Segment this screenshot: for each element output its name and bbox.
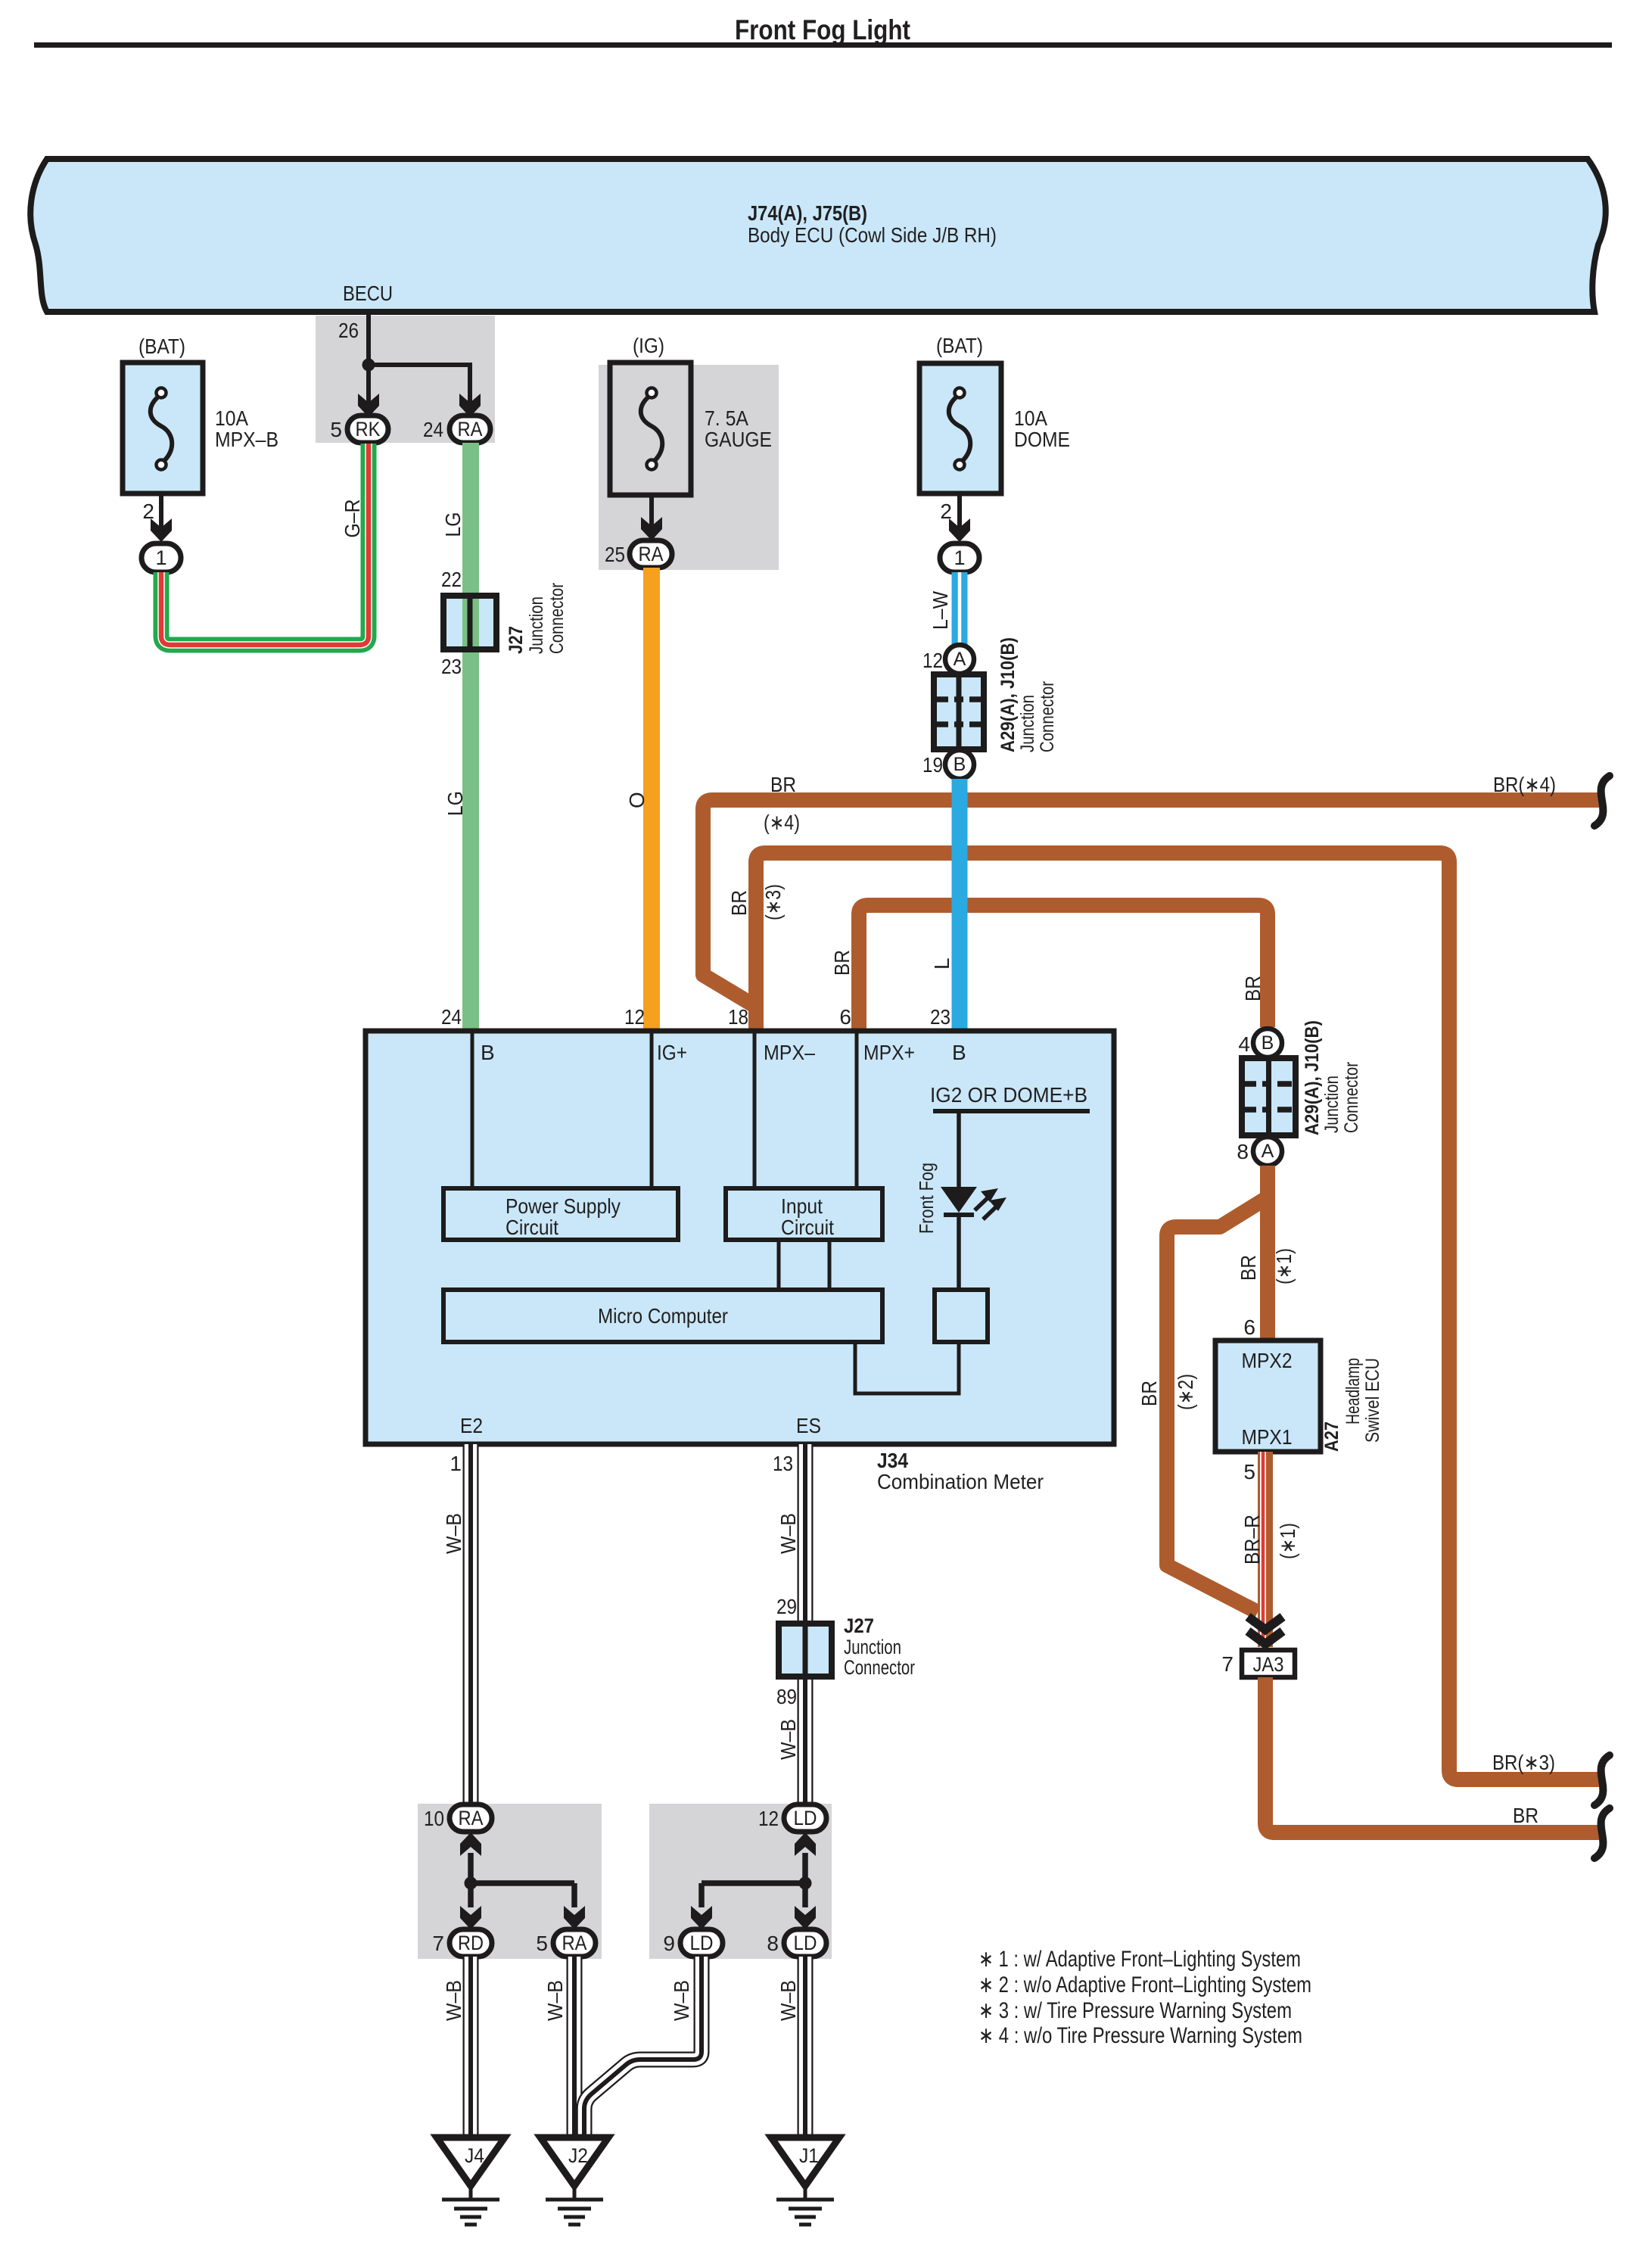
wire W-B RD7 to ground J4 [463,1957,479,2137]
svg-text:Junction: Junction [526,596,547,654]
svg-text:18: 18 [728,1005,748,1029]
svg-text:BR: BR [727,890,751,916]
svg-text:(∗3): (∗3) [761,884,785,920]
svg-text:IG2 OR DOME+B: IG2 OR DOME+B [930,1083,1087,1107]
svg-text:A29(A), J10(B): A29(A), J10(B) [997,637,1019,752]
connector oval 1 [940,543,979,572]
junction connector J27 frame [443,596,496,649]
ground J1 [771,2137,839,2186]
svg-text:A: A [1262,1141,1274,1162]
svg-text:29: 29 [776,1595,797,1618]
ECU A27 Headlamp Swivel ECU [1215,1340,1321,1452]
junction connector A29(A),J10(B) lower [1242,1058,1296,1135]
svg-text:24: 24 [441,1005,462,1029]
svg-text:LG: LG [443,791,467,816]
svg-text:22: 22 [441,568,462,591]
wire to RK [366,365,371,406]
svg-text:Connector: Connector [1037,681,1058,752]
svg-text:1: 1 [450,1452,462,1475]
svg-text:L–W: L–W [929,590,952,630]
wire BECU pin 26 [366,312,371,365]
svg-text:Combination Meter: Combination Meter [877,1470,1044,1493]
svg-text:24: 24 [423,418,443,441]
svg-text:1: 1 [155,546,166,569]
arrow into RK [358,394,379,417]
svg-text:L: L [930,957,954,970]
svg-text:W–B: W–B [543,1980,567,2021]
svg-text:13: 13 [773,1452,793,1475]
svg-text:LD: LD [794,1807,817,1829]
svg-text:7: 7 [1221,1652,1234,1676]
svg-text:J27: J27 [506,626,527,654]
pin circle A 8 [1253,1137,1282,1166]
svg-text:(∗2): (∗2) [1174,1374,1197,1410]
wire BR(*4) horizontal to right edge [703,800,1599,1007]
ground J4 [437,2137,505,2186]
svg-text:∗ 1 : w/ Adaptive Front–Lighti: ∗ 1 : w/ Adaptive Front–Lighting System [978,1947,1301,1972]
svg-text:LG: LG [441,512,465,537]
svg-text:RK: RK [356,418,381,441]
svg-text:RA: RA [458,418,483,441]
connector oval RK pin 5 [347,416,388,443]
svg-text:4: 4 [1238,1032,1250,1056]
svg-text:B: B [481,1041,495,1064]
svg-text:J2: J2 [568,2144,588,2167]
connector oval RA pin 5 [553,1929,596,1957]
svg-text:ES: ES [796,1414,821,1437]
svg-text:Swivel ECU: Swivel ECU [1362,1358,1383,1443]
wire BR(*2) bypass [1167,1197,1268,1612]
connector oval RD pin 7 [450,1929,492,1957]
svg-text:5: 5 [536,1932,548,1955]
svg-text:BR: BR [1137,1381,1161,1406]
svg-text:1: 1 [954,546,965,569]
wire to LED [957,1111,961,1188]
wire W-B RA5 to ground J2 [567,1957,583,2137]
wire BR: meter pin 6 up, right, down to connector B 4 [859,905,1268,1031]
arrow into RA [459,394,481,417]
svg-text:Connector: Connector [1341,1062,1362,1133]
svg-text:BR(∗4): BR(∗4) [1493,773,1556,796]
svg-text:J1: J1 [799,2144,819,2167]
svg-text:IG+: IG+ [657,1041,687,1064]
svg-text:12: 12 [922,649,943,672]
svg-text:O: O [625,792,649,808]
arrow into oval 1 [151,518,172,542]
svg-text:23: 23 [441,655,462,678]
svg-text:A29(A), J10(B): A29(A), J10(B) [1302,1020,1323,1135]
svg-text:6: 6 [839,1005,851,1029]
svg-text:7. 5A: 7. 5A [705,406,748,430]
pin circle B 19 [945,750,974,779]
connector oval LD pin 12 [784,1804,826,1832]
svg-text:RA: RA [639,543,664,565]
svg-text:Junction: Junction [1017,695,1038,752]
svg-text:LD: LD [794,1932,817,1954]
wire W-B LD9 merging to J2 [584,1957,702,2137]
svg-text:26: 26 [338,319,359,342]
svg-text:Power Supply: Power Supply [506,1194,621,1218]
wire to RA [366,363,470,367]
svg-text:∗ 3 : w/ Tire Pressure Warning: ∗ 3 : w/ Tire Pressure Warning System [978,1998,1292,2023]
svg-text:E2: E2 [460,1414,483,1437]
LED driver box [935,1290,988,1342]
svg-text:(BAT): (BAT) [138,335,185,358]
svg-text:Junction: Junction [1321,1076,1342,1133]
connector oval RA pin 25 [630,540,672,568]
svg-text:JA3: JA3 [1253,1653,1284,1676]
svg-text:A: A [954,649,966,670]
svg-text:19: 19 [922,753,943,777]
svg-text:DOME: DOME [1014,428,1070,451]
junction connector A29(A),J10(B) upper [934,674,984,749]
svg-text:9: 9 [663,1932,675,1955]
arrow into LD 8 [795,1906,816,1929]
tear mark BR [1594,1808,1610,1858]
wire LG from RA to meter pin 24/B [462,443,479,1031]
wire BR(*3): meter pin 18 up, right, down, to right edge [756,853,1599,1779]
power supply circuit box [443,1188,678,1240]
svg-text:W–B: W–B [670,1980,693,2021]
svg-text:G–R: G–R [341,500,364,538]
svg-text:W–B: W–B [776,1513,800,1554]
svg-text:J74(A), J75(B): J74(A), J75(B) [748,201,867,225]
LED Front Fog [941,1187,977,1213]
connector JA3 pin 7 [1242,1650,1295,1677]
connector oval RA pin 24 [450,416,490,443]
svg-text:8: 8 [1237,1140,1249,1163]
connector oval RA pin 10 [450,1804,492,1832]
svg-text:89: 89 [776,1685,797,1708]
svg-text:MPX1: MPX1 [1242,1425,1293,1449]
svg-text:23: 23 [930,1005,950,1029]
svg-text:Front Fog Light: Front Fog Light [735,14,910,45]
svg-text:12: 12 [624,1005,645,1029]
arrow into RA 5 [564,1906,585,1929]
junction dot [465,1877,478,1890]
connector oval LD pin 8 [784,1929,826,1957]
arrow into RA pin 25 [641,517,662,540]
wire micro to LED driver [855,1342,959,1393]
svg-text:GAUGE: GAUGE [705,428,772,451]
svg-text:(∗4): (∗4) [764,811,800,834]
svg-text:Micro Computer: Micro Computer [598,1304,728,1328]
svg-text:BR: BR [1513,1804,1538,1827]
svg-text:2: 2 [940,500,952,523]
wire L from B 19 to meter pin 23/B [952,779,968,1031]
svg-text:Front Fog: Front Fog [915,1163,938,1234]
title rule [34,42,1612,48]
svg-text:(∗1): (∗1) [1272,1248,1296,1284]
bus band J74(A),J75(B) Body ECU (Cowl Side J/B RH) [30,159,1606,312]
svg-text:Headlamp: Headlamp [1342,1358,1364,1424]
svg-text:W–B: W–B [776,1980,800,2021]
svg-text:RA: RA [459,1807,484,1829]
arrow up into RA 10 [460,1832,481,1856]
arrow into RD 7 [460,1906,481,1929]
svg-text:Connector: Connector [844,1656,915,1679]
svg-text:BR–R: BR–R [1240,1515,1264,1565]
svg-text:LD: LD [690,1932,714,1954]
wire BR from JA3 to right edge [1265,1677,1599,1832]
pin circle A 12 [945,645,974,674]
svg-text:W–B: W–B [442,1980,465,2021]
wire BR(*1) from A 8 to MPX2 [1260,1166,1275,1340]
wire O from RA 25 to meter IG+ [643,568,660,1031]
arrow into oval 1 [949,518,970,542]
svg-text:J27: J27 [844,1614,874,1637]
grey box BECU pins [316,316,495,443]
double chevron into JA3 [1248,1617,1283,1630]
micro computer box [443,1290,882,1342]
svg-text:W–B: W–B [442,1513,465,1554]
svg-text:5: 5 [1243,1460,1255,1484]
svg-text:MPX–: MPX– [764,1041,815,1064]
svg-text:J34: J34 [877,1449,908,1472]
svg-text:MPX2: MPX2 [1242,1349,1293,1372]
svg-text:MPX–B: MPX–B [215,428,278,451]
svg-text:RD: RD [458,1932,484,1954]
svg-text:Input: Input [781,1194,823,1218]
svg-text:6: 6 [1243,1315,1255,1339]
junction dot [362,359,375,372]
wire W-B LD8 to ground J1 [798,1957,814,2137]
svg-text:Junction: Junction [844,1636,901,1658]
svg-text:B: B [1262,1032,1274,1054]
grey box connectors left [418,1804,602,1959]
svg-text:5: 5 [330,418,342,441]
ground J2 [540,2137,608,2186]
wire BR-R from MPX1 to JA3 [1258,1452,1273,1647]
wire L-W from oval 1 to junction connector A [952,572,968,646]
svg-text:∗ 4 : w/o Tire Pressure Warnin: ∗ 4 : w/o Tire Pressure Warning System [978,2023,1302,2048]
svg-text:BR: BR [1241,976,1265,1001]
svg-text:Circuit: Circuit [781,1216,834,1239]
tear mark BR(*3) [1594,1755,1610,1805]
svg-text:10: 10 [424,1807,444,1830]
wires input to micro [777,1240,781,1290]
svg-text:B: B [954,754,966,775]
connector oval 1 [142,543,181,572]
svg-text:BR: BR [830,950,854,976]
svg-text:Connector: Connector [546,583,568,654]
connector oval LD pin 9 [680,1929,723,1957]
wire fuse MPX-B pin 2 [159,494,163,530]
svg-text:12: 12 [758,1807,779,1830]
svg-text:Circuit: Circuit [506,1216,558,1239]
svg-text:MPX+: MPX+ [863,1041,915,1064]
input circuit box [726,1188,882,1240]
svg-text:7: 7 [432,1932,444,1955]
combination meter J34 box [366,1031,1114,1444]
tear mark BR(*4) [1594,776,1610,826]
grey box connectors right [649,1804,832,1959]
svg-text:J4: J4 [465,2144,484,2167]
pin circle B 4 [1253,1029,1282,1057]
svg-text:(∗1): (∗1) [1276,1523,1299,1559]
svg-text:25: 25 [605,543,625,566]
junction dot [799,1877,812,1890]
svg-text:BR(∗3): BR(∗3) [1492,1751,1555,1774]
arrow up into LD 12 [795,1832,816,1856]
svg-text:(BAT): (BAT) [936,334,983,357]
svg-text:10A: 10A [215,406,248,430]
svg-text:Body ECU (Cowl Side J/B RH): Body ECU (Cowl Side J/B RH) [748,223,997,247]
svg-text:∗ 2 : w/o Adaptive Front–Light: ∗ 2 : w/o Adaptive Front–Lighting System [978,1972,1311,1997]
svg-text:2: 2 [142,500,154,523]
svg-text:BECU: BECU [343,282,393,305]
svg-text:BR: BR [770,773,796,796]
svg-text:W–B: W–B [776,1719,800,1760]
wire fuse DOME pin 2 [957,494,962,530]
svg-text:BR: BR [1237,1255,1260,1281]
svg-text:(IG): (IG) [633,334,664,357]
svg-text:8: 8 [767,1932,779,1955]
svg-text:RA: RA [562,1932,587,1954]
wire fuse GAUGE to RA [649,495,654,530]
grey box IG fuse [599,365,779,570]
svg-text:10A: 10A [1014,406,1047,430]
arrow into LD 9 [691,1906,712,1929]
wire G-R from oval 1 to RK [161,444,369,645]
svg-text:B: B [952,1041,966,1064]
svg-text:A27: A27 [1321,1421,1342,1452]
